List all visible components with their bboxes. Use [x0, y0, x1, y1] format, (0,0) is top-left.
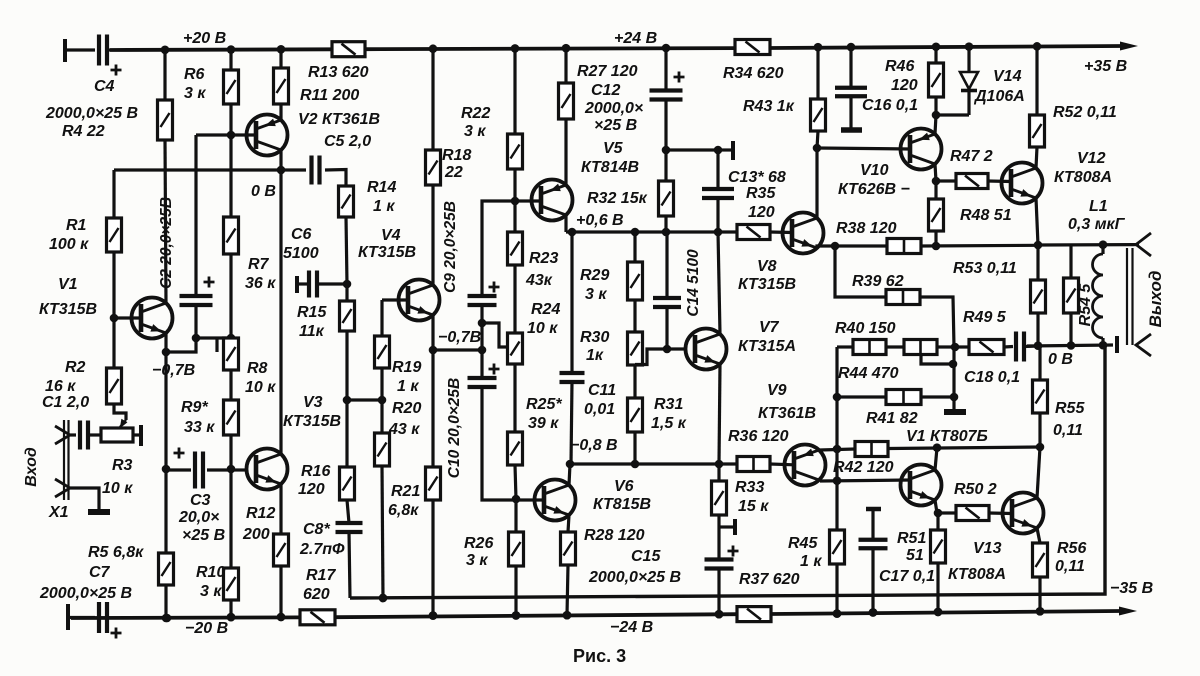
wire V3 emitter to R12 [279, 484, 282, 534]
node R19/R20 [378, 396, 387, 405]
svg-text:V12: V12 [1077, 150, 1106, 167]
svg-text:R35: R35 [746, 185, 776, 202]
svg-text:R45: R45 [788, 535, 818, 552]
svg-text:R27 120: R27 120 [577, 63, 638, 80]
wire V7 collector up to C13 node [718, 232, 720, 334]
svg-text:С14 5100: С14 5100 [685, 249, 702, 317]
svg-text:С15: С15 [631, 548, 661, 565]
resistor R53 (0,11) [1031, 280, 1046, 313]
wire R24 to R25 [513, 364, 516, 432]
svg-text:С7: С7 [89, 564, 111, 581]
svg-text:R7: R7 [248, 256, 270, 273]
wire C17 to bottom rail [871, 548, 874, 612]
wire C16 bottom [849, 96, 852, 128]
wire C11 stem [570, 232, 573, 373]
wire base node down to R7 [229, 135, 232, 217]
wire node to R26 [514, 499, 517, 532]
svg-text:R49 5: R49 5 [963, 309, 1007, 326]
wire between R40 and R44 [886, 345, 904, 348]
resistor R9* (33k) [224, 400, 239, 435]
svg-text:+20 В: +20 В [183, 30, 226, 47]
wire rail to R11 [279, 50, 282, 68]
svg-text:R52 0,11: R52 0,11 [1053, 104, 1117, 121]
resistor R39 (62) [886, 290, 920, 305]
wire to R47 [936, 179, 956, 182]
wire R55 top to 0V node [1038, 346, 1041, 380]
wire R43 to V8 collector node [817, 131, 818, 148]
svg-text:R12: R12 [246, 505, 275, 522]
wire R56 to bottom rail [1038, 577, 1041, 611]
node R50/R51 [934, 509, 943, 518]
junction R42 wire/vertical [833, 445, 842, 454]
resistor R37 (620) in bottom rail [737, 607, 771, 622]
svg-text:R42 120: R42 120 [833, 459, 894, 476]
svg-text:R56: R56 [1057, 540, 1086, 557]
resistor R19 (1k) [375, 336, 390, 368]
resistor R7 (36k) [224, 217, 239, 254]
wire R10 to bottom rail [229, 600, 232, 617]
svg-text:22: 22 [444, 164, 463, 181]
connector X1 lower pin arrow [55, 479, 70, 497]
svg-text:R38 120: R38 120 [836, 220, 897, 237]
svg-text:1,5 к: 1,5 к [651, 415, 687, 432]
wire -20V/-24V/-35V bottom supply rail [71, 616, 300, 620]
wire C18 to 0V node [1024, 344, 1038, 348]
wire R46 to V10 collector node [934, 97, 937, 115]
svg-text:10 к: 10 к [102, 480, 133, 497]
wire R41 right to ground [921, 395, 954, 398]
svg-text:R18: R18 [442, 147, 471, 164]
node R41/ground [950, 393, 959, 402]
svg-text:R5 6,8к: R5 6,8к [88, 544, 144, 561]
ground symbol input [88, 509, 110, 515]
wire node to C13 top [666, 148, 718, 151]
svg-text:V14: V14 [993, 68, 1022, 85]
wire V2 collector to 0V line [279, 150, 282, 170]
svg-text:V13: V13 [973, 540, 1002, 557]
wire R15 to R16 with tap [345, 331, 348, 467]
wire R27 to V5 emitter [564, 119, 567, 185]
capacitor C16 (0,1) [835, 86, 867, 90]
resistor R35 (120) in +0,6V wire [737, 225, 770, 240]
wire +0,6V net [566, 230, 737, 233]
svg-text:120: 120 [748, 204, 775, 221]
svg-text:3 к: 3 к [464, 123, 486, 140]
wire V2 base to C2 top [194, 135, 197, 296]
wire R54 top lead [1069, 245, 1072, 278]
wire V6 emitter to R28 [568, 515, 569, 532]
svg-text:43к: 43к [525, 272, 553, 289]
wire V4 base lead [382, 298, 408, 301]
svg-text:R15: R15 [297, 304, 327, 321]
svg-text:V1: V1 [58, 276, 78, 293]
transistor V5 KT814V [532, 180, 573, 221]
transistor V2 KT361V [247, 115, 288, 156]
resistor R21 (6,8k) [426, 467, 441, 500]
svg-text:С5 2,0: С5 2,0 [324, 133, 371, 150]
wire R30 to R31 and base jog [633, 365, 636, 398]
svg-text:V6: V6 [614, 478, 634, 495]
wire C14 stem top [665, 232, 668, 298]
svg-text:R31: R31 [654, 396, 683, 413]
wire node to diode [936, 113, 969, 116]
wire C6 right lead [317, 282, 347, 285]
junction dots bottom rail [163, 614, 172, 623]
svg-text:R53 0,11: R53 0,11 [953, 260, 1017, 277]
wire R50 to V13 base [989, 511, 1012, 515]
svg-text:R44 470: R44 470 [838, 365, 899, 382]
svg-text:R30: R30 [580, 329, 609, 346]
connector X1 upper pin arrow [55, 426, 70, 444]
resistor R44 (470) [904, 340, 937, 355]
svg-text:20,0×: 20,0× [178, 509, 219, 526]
svg-text:КТ361В: КТ361В [758, 405, 816, 422]
wire V10 emitter down [935, 164, 936, 181]
junction R5-rail [162, 614, 171, 623]
resistor R45 (1k) [830, 530, 845, 564]
svg-text:R41 82: R41 82 [866, 410, 918, 427]
wire rail to R6 [229, 50, 232, 70]
svg-text:R40 150: R40 150 [835, 320, 896, 337]
wire R9 to C3 node [229, 435, 232, 470]
wire R26 to bottom rail [514, 566, 517, 615]
wire R19 to node [380, 368, 383, 400]
resistor R47 (2) [956, 174, 988, 189]
wire C12 bottom to R32 node [664, 100, 667, 151]
wire R33 to C15 [717, 515, 720, 560]
resistor R4 (22) [158, 100, 173, 140]
capacitor C10 (20,0x25V electrolytic) [468, 376, 497, 380]
svg-text:51: 51 [906, 547, 924, 564]
svg-text:С17 0,1: С17 0,1 [879, 568, 935, 585]
svg-text:С18 0,1: С18 0,1 [964, 369, 1020, 386]
wire V4 base to R19 [380, 300, 383, 336]
svg-text:620: 620 [303, 586, 330, 603]
node V1 emitter [162, 348, 171, 357]
svg-text:КТ814В: КТ814В [581, 159, 639, 176]
wire +20V/+24V/+35V top supply rail [110, 47, 332, 52]
wire node down to R48 [934, 181, 937, 199]
junction R28-rail [563, 611, 572, 620]
terminal bar C4 left [63, 39, 67, 62]
svg-text:С1 2,0: С1 2,0 [42, 394, 89, 411]
node C6/R14/R15 [343, 280, 352, 289]
capacitor C14 (5100) [653, 296, 681, 300]
transistor V8 KT315V [783, 213, 824, 254]
svg-text:120: 120 [298, 481, 325, 498]
svg-text:КТ815В: КТ815В [593, 496, 651, 513]
junction C12-rail [662, 44, 671, 53]
svg-text:2000,0×25 В: 2000,0×25 В [45, 105, 138, 122]
node tap [949, 360, 958, 369]
svg-text:V9: V9 [767, 382, 787, 399]
transistor V4 KT315V [399, 280, 440, 321]
wire V7 emitter down [719, 364, 720, 464]
svg-text:0,01: 0,01 [584, 401, 615, 418]
resistor R28 (120) [561, 532, 576, 565]
wire V13 emitter to R56 [1037, 528, 1040, 543]
wire R51 to bottom rail [936, 563, 939, 612]
wire output node to terminal [1038, 243, 1134, 247]
svg-text:−0,8 В: −0,8 В [570, 437, 618, 454]
wire R11 to V2 emitter [279, 104, 282, 120]
wire rail to R4 [163, 50, 166, 100]
wire V11 emitter to R50 node [935, 500, 937, 513]
wire R33 top [717, 464, 720, 481]
wire R16 to C8 [347, 500, 349, 523]
svg-text:+35 В: +35 В [1084, 58, 1127, 75]
wire tap to R19/R20 node [347, 398, 382, 401]
wire R44 to R49 [937, 345, 969, 348]
junction R31--0,8V wire [631, 460, 640, 469]
node C14 bottom on base wire [663, 345, 672, 354]
svg-text:V7: V7 [759, 319, 780, 336]
wire rail to R43 [816, 47, 819, 99]
resistor R11 (200) [274, 68, 289, 104]
resistor R50 (2) [956, 506, 989, 521]
svg-text:V8: V8 [757, 258, 777, 275]
svg-text:3 к: 3 к [466, 552, 488, 569]
svg-text:R24: R24 [531, 301, 560, 318]
wire R55 column [1038, 380, 1041, 413]
node V1 base [110, 314, 119, 323]
wire rail to R22 [513, 49, 516, 134]
transistor V3 KT315V [247, 449, 288, 490]
capacitor C9 (20,0x25V electrolytic) [468, 294, 497, 298]
svg-text:R11 200: R11 200 [300, 87, 359, 104]
svg-text:1 к: 1 к [800, 553, 822, 570]
wire rail to C16 [849, 47, 852, 88]
svg-text:0,11: 0,11 [1053, 422, 1083, 439]
junction R45-rail [833, 609, 842, 618]
svg-text:R2: R2 [65, 359, 86, 376]
wire V8 collector up [815, 148, 818, 218]
resistor R29 (3k) [628, 262, 643, 300]
svg-text:КТ315В: КТ315В [283, 413, 341, 430]
wire C10 bottom to V6 base [482, 387, 544, 500]
resistor R41 (82) [886, 390, 921, 405]
wire R15 top [345, 284, 348, 301]
svg-text:5100: 5100 [283, 245, 319, 262]
svg-text:С4: С4 [94, 78, 115, 95]
wire R21 to bottom rail [431, 500, 434, 616]
svg-text:V4: V4 [381, 227, 401, 244]
svg-text:КТ626В −: КТ626В − [838, 181, 910, 198]
wire V9 emitter row R42 [820, 449, 855, 450]
junction R56-rail [1036, 607, 1045, 616]
resistor R54 (5) [1064, 278, 1079, 313]
wire C14 stem bottom [665, 307, 668, 349]
capacitor C1 (2,0) [78, 421, 82, 450]
svg-text:R3: R3 [112, 457, 133, 474]
wire R23 to R24 [513, 265, 516, 333]
wire rail to R52 [1035, 46, 1038, 115]
wire to trimmer bar [718, 148, 731, 151]
svg-text:С6: С6 [291, 226, 312, 243]
terminal bar output lower [1115, 336, 1119, 353]
resistor R26 (3k) [509, 532, 524, 566]
svg-text:R46: R46 [885, 58, 914, 75]
junction dot 0V line [379, 594, 388, 603]
wire rail to R18 [431, 49, 434, 150]
wire 0V output node [1027, 345, 1113, 346]
svg-text:R21: R21 [391, 483, 420, 500]
resistor R46 (120) [929, 63, 944, 97]
resistor R12 (200) [274, 534, 289, 566]
svg-text:R55: R55 [1055, 400, 1085, 417]
wire input pin to C1 [70, 433, 76, 436]
node -0,7V wire left [429, 346, 438, 355]
resistor R32 (15k) [659, 181, 674, 216]
svg-text:КТ315А: КТ315А [738, 338, 796, 355]
terminal bar R3 right [139, 425, 143, 446]
node R53 bottom [1034, 341, 1043, 350]
svg-text:С3: С3 [190, 492, 211, 509]
terminal bar C16 bottom [841, 127, 862, 133]
wire V6 collector up [569, 464, 570, 485]
wire -0,8V net [570, 462, 737, 465]
wire V9 collector row to V11 base [820, 480, 910, 481]
svg-text:3 к: 3 к [585, 286, 607, 303]
svg-text:R17: R17 [306, 567, 336, 584]
resistor R24 (10k) [508, 333, 523, 364]
terminal bar C7 left [66, 604, 70, 630]
svg-text:3 к: 3 к [184, 85, 206, 102]
wire R36 to V9 base [770, 462, 794, 466]
wire R14 to C6 node [346, 217, 347, 284]
wire R45 to bottom rail [835, 564, 838, 614]
capacitor C17 (0,1) [859, 538, 888, 542]
wire C13 stem [716, 150, 719, 189]
svg-text:R19: R19 [392, 359, 421, 376]
svg-text:R4 22: R4 22 [62, 123, 105, 140]
transistor V1 KT315V [132, 298, 173, 339]
svg-text:R13 620: R13 620 [308, 64, 369, 81]
wire R4 to V1 collector [165, 140, 166, 303]
capacitor C8* (2,7pF) [336, 521, 363, 525]
resistor R31 (1,5k) [628, 398, 643, 432]
capacitor C12 (2000,0x25V electrolytic) [650, 88, 683, 92]
node R39 tap [831, 242, 840, 251]
wire 0V line upper-left [114, 168, 306, 171]
wire node to R50 [938, 511, 956, 514]
resistor R10 (3k) [224, 568, 239, 600]
resistor R8 (10k) [224, 338, 239, 370]
wire R53 column [1036, 245, 1039, 280]
svg-text:43 к: 43 к [388, 421, 420, 438]
junction R21-rail [429, 611, 438, 620]
svg-text:−0,7В: −0,7В [152, 362, 195, 379]
resistor R23 (43k) [508, 232, 523, 265]
wire C6 left lead [297, 282, 307, 285]
svg-text:Вход: Вход [23, 447, 40, 487]
transistor V9 KT361V [785, 445, 826, 486]
svg-text:R14: R14 [367, 179, 396, 196]
wire C13 bottom [716, 198, 719, 232]
svg-text:2000,0×: 2000,0× [584, 100, 643, 117]
wire C4 left lead [65, 48, 95, 51]
wire R3 right lead [133, 433, 141, 436]
svg-text:V3: V3 [303, 394, 323, 411]
svg-text:V5: V5 [603, 140, 624, 157]
svg-text:Д106А: Д106А [973, 88, 1025, 105]
wire V5 base node to C9 [482, 201, 515, 296]
resistor R42 (120) [855, 442, 888, 457]
svg-text:КТ315В: КТ315В [358, 244, 416, 261]
wire C9 bottom [480, 305, 483, 350]
wire R32 leads [664, 150, 667, 181]
svg-text:3 к: 3 к [200, 583, 222, 600]
svg-text:R20: R20 [392, 400, 421, 417]
svg-text:R29: R29 [580, 267, 609, 284]
stub crossover [215, 338, 218, 352]
node C2 bottom [192, 334, 201, 343]
connector output lower pin arrow [1136, 334, 1151, 356]
svg-text:R48 51: R48 51 [960, 207, 1012, 224]
capacitor C6 (5100) [307, 271, 311, 298]
svg-text:R33: R33 [735, 479, 764, 496]
node C3 left [162, 465, 171, 474]
resistor R14 (1k) [339, 186, 354, 217]
wire upper pin lead [1134, 243, 1139, 246]
node R32 top [662, 146, 671, 155]
terminal stub C15 [719, 525, 733, 528]
wire C3 node down to R5 [164, 469, 167, 553]
resistor R6 (3k) [224, 70, 239, 104]
wire R35 to V8 base [770, 230, 792, 234]
svg-text:R22: R22 [461, 105, 490, 122]
wire R2 to R3 wiper arm [114, 404, 126, 420]
svg-text:120: 120 [891, 77, 918, 94]
wire rail to R27 [564, 49, 567, 83]
wire R1 to V1 base node [112, 252, 115, 318]
wire tap down to R39 [835, 246, 886, 297]
transistor V12 KT808A [1002, 163, 1043, 204]
wire R29 to R30 [633, 300, 636, 332]
resistor R20 (43k) [375, 433, 390, 466]
connector output upper pin arrow [1136, 233, 1151, 256]
node C10 top on -0,7V wire [478, 346, 487, 355]
wire R42 right [888, 447, 1040, 449]
svg-text:R9*: R9* [181, 399, 208, 416]
inductor L1 (0,3 uH) [1101, 245, 1104, 254]
wire tap jog to R24 [482, 323, 508, 347]
resistor R56 (0,11) [1033, 543, 1048, 577]
svg-text:Выход: Выход [1146, 271, 1165, 328]
wire V2 base lead [196, 133, 256, 136]
wire V8 emitter wire [817, 246, 887, 248]
resistor R38 (120) [887, 239, 921, 254]
svg-text:V2 КТ361В: V2 КТ361В [298, 111, 380, 128]
wire 0V line corner down to R1 [112, 170, 115, 218]
wire V1 emitter down [164, 333, 167, 352]
node V11 collector [933, 443, 942, 452]
wire R6 to V2 base node [229, 104, 232, 135]
resistor R51 (51) [931, 530, 946, 563]
resistor R2 (16k) [107, 368, 122, 404]
node V7 emitter / R33 [715, 460, 724, 469]
wire R52 to V12 collector [1036, 147, 1037, 168]
resistor R25* (39k) [508, 432, 523, 465]
svg-text:2000,0×25 В: 2000,0×25 В [588, 569, 681, 586]
svg-text:+0,6 В: +0,6 В [576, 212, 624, 229]
capacitor C15 (2000,0x25V electrolytic) [705, 557, 734, 561]
resistor R18 (22) [426, 150, 441, 185]
wire V7 base jog [635, 349, 684, 365]
svg-text:С16 0,1: С16 0,1 [862, 97, 918, 114]
svg-text:R43 1к: R43 1к [743, 98, 795, 115]
svg-text:R50 2: R50 2 [954, 481, 997, 498]
